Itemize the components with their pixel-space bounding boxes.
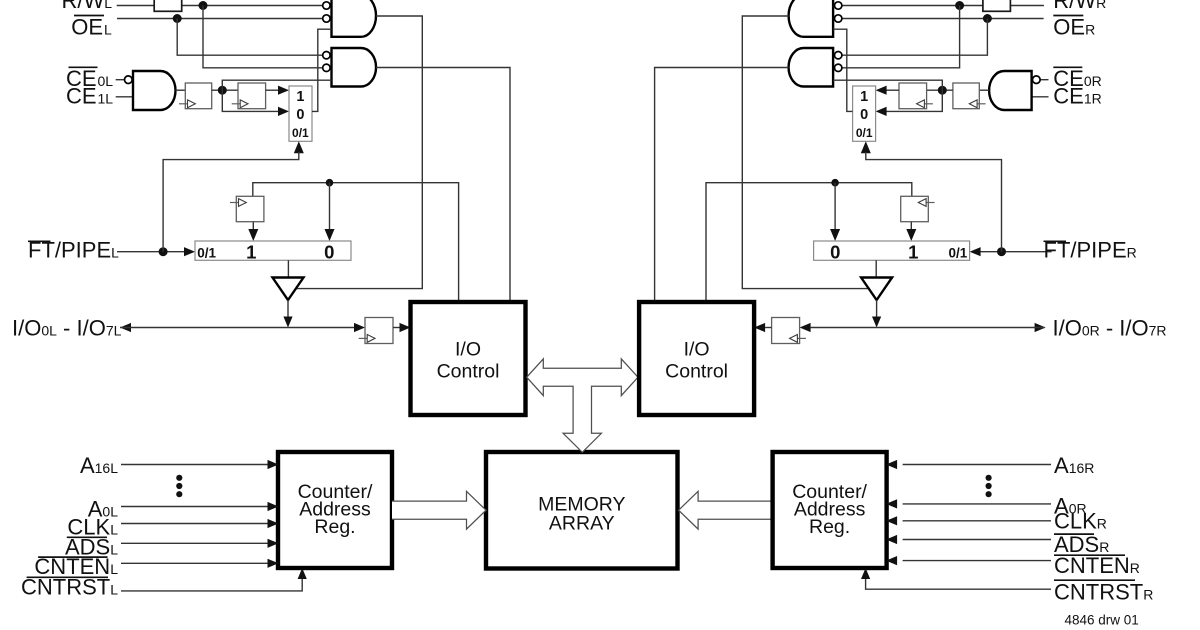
block Counter/Address Reg. R bbox=[773, 452, 887, 568]
arrow into M2R input 1 bbox=[906, 229, 916, 241]
node R/WL junction bbox=[199, 1, 208, 10]
arrow A16R into Counter R bbox=[886, 460, 897, 469]
arrow A0R into Counter R bbox=[886, 499, 897, 508]
arrow CNTENL into Counter L bbox=[268, 559, 279, 568]
wire junction up to gate G2L bbox=[222, 80, 331, 90]
label M1L 0 bbox=[296, 107, 304, 123]
overline FT/PIPER FT bbox=[1044, 240, 1067, 242]
svg-text:Control: Control bbox=[437, 361, 500, 383]
mux M2R (output flow-through/pipe) bbox=[814, 241, 970, 260]
wire CNTRSTL line bbox=[121, 579, 302, 591]
wire I/OR line bbox=[811, 327, 1045, 329]
arrow I/OR out bbox=[1035, 323, 1046, 332]
label CE1R bbox=[1053, 84, 1101, 109]
node pipe data junction bbox=[326, 179, 334, 187]
bubble G1L input 2 bbox=[323, 15, 330, 22]
arrow into M1R input 0 bbox=[876, 107, 887, 116]
wire junction down to M2L input 0 bbox=[329, 183, 331, 230]
wire TL to I/O line bbox=[287, 300, 289, 317]
latch L1L bbox=[185, 83, 211, 109]
label CE0R bbox=[1053, 66, 1101, 91]
label ADSR bbox=[1054, 532, 1109, 557]
label Counter L line1 bbox=[298, 481, 373, 503]
bubble G1R input 2 bbox=[835, 15, 842, 22]
label A0R bbox=[1054, 494, 1087, 519]
svg-text:0L: 0L bbox=[98, 73, 114, 89]
wire R/WL branch to gate G2L bbox=[203, 6, 322, 68]
bus arrow Counter R to Memory bbox=[679, 491, 773, 529]
wire FT/PIPER select up to M1R bbox=[866, 152, 1002, 252]
and-gate G3R (chip enable) bbox=[989, 71, 1031, 110]
wire pipe data line bbox=[253, 183, 459, 301]
svg-text:Control: Control bbox=[665, 361, 728, 383]
svg-text:CNTENR: CNTENR bbox=[1054, 553, 1140, 578]
and-gate G2R (write control) bbox=[789, 48, 834, 87]
wire OER line bbox=[842, 18, 1043, 20]
label M1R 0 bbox=[860, 107, 868, 123]
arrow into M2L input 0 bbox=[325, 229, 335, 241]
svg-text:CNTRSTL: CNTRSTL bbox=[21, 575, 118, 600]
wire CE0L stub bbox=[116, 79, 125, 81]
label Counter L line3 bbox=[314, 516, 355, 538]
wire L1L to L2L bbox=[212, 89, 238, 91]
arrow TL onto I/O line bbox=[283, 317, 292, 328]
arrow into latch L4L bbox=[354, 323, 365, 332]
label CE1L bbox=[66, 84, 113, 109]
bubble G2L input 1 bbox=[323, 52, 330, 59]
label Memory line1 bbox=[538, 494, 625, 516]
label R/WR bbox=[1053, 0, 1106, 13]
arrow into M1R input 1 bbox=[876, 86, 887, 95]
svg-text:1: 1 bbox=[246, 241, 256, 262]
svg-text:ARRAY: ARRAY bbox=[549, 513, 615, 535]
label M1L 0/1 bbox=[292, 126, 309, 140]
label I/O Control R line2 bbox=[665, 361, 728, 383]
wire A0R line bbox=[903, 503, 1051, 505]
wire FT/PIPEL line bbox=[117, 251, 185, 253]
arrow CNTRSTR into Counter R bbox=[861, 568, 870, 579]
node OEL junction bbox=[173, 14, 182, 23]
arrow into I/O control L bbox=[400, 323, 411, 332]
label Counter R line2 bbox=[794, 499, 866, 521]
svg-text:4846 drw 01: 4846 drw 01 bbox=[1065, 613, 1139, 628]
label A16L bbox=[80, 453, 118, 478]
buffer box on R/WR line bbox=[983, 0, 1011, 11]
label CNTRSTR bbox=[1054, 580, 1153, 605]
clock pin L3L bbox=[230, 199, 246, 207]
overline ADSR bbox=[1054, 533, 1094, 535]
wire CNTENL line bbox=[121, 562, 268, 564]
label Counter L line2 bbox=[299, 499, 371, 521]
wire CNTENR line bbox=[903, 560, 1051, 562]
svg-text:0: 0 bbox=[296, 107, 304, 123]
label I/O Control L line2 bbox=[437, 361, 500, 383]
clock pin L2R bbox=[917, 100, 933, 108]
wire OEL branch to gate G2L bbox=[177, 19, 322, 56]
wire ADSL line bbox=[121, 542, 268, 544]
wire FT/PIPEL select up to M1L bbox=[163, 152, 299, 252]
label ADSL bbox=[65, 535, 118, 560]
overline FT/PIPEL FT bbox=[28, 240, 51, 242]
label M1L 1 bbox=[296, 89, 304, 105]
label CE0L bbox=[66, 66, 113, 91]
wire CLKL line bbox=[121, 523, 268, 525]
arrow CLKL into Counter L bbox=[268, 519, 279, 528]
wire CE1R stub bbox=[1032, 96, 1049, 98]
label I/O0L - I/O7L bbox=[12, 316, 122, 341]
bubble G2R input 1 bbox=[835, 52, 842, 59]
arrow into latch L4R bbox=[800, 323, 811, 332]
latch L1R bbox=[953, 83, 979, 109]
overline OER bbox=[1053, 15, 1083, 17]
arrow select into M1R bbox=[861, 141, 871, 153]
node OER junction bbox=[983, 14, 992, 23]
wire CNTRSTR line bbox=[866, 579, 1051, 590]
block I/O Control R bbox=[639, 302, 754, 415]
clock pin L4R bbox=[790, 335, 806, 343]
wire G3L out bbox=[176, 89, 186, 91]
wire L2R to mux M1R input 1 bbox=[886, 89, 899, 91]
wire M1R output to gate G1R bbox=[833, 29, 853, 111]
wire A16L line bbox=[121, 464, 268, 466]
clock pin L1R bbox=[969, 100, 985, 108]
label CNTENL bbox=[34, 554, 118, 579]
overline CNTENR bbox=[1054, 554, 1125, 556]
wire pipe data line R bbox=[706, 183, 912, 301]
label R/WL bbox=[61, 0, 112, 13]
wire CE1L stub bbox=[116, 96, 133, 98]
wire G3R out bbox=[979, 89, 989, 91]
and-gate G3L (chip enable) bbox=[133, 71, 175, 110]
label A0L bbox=[88, 497, 118, 522]
wire CE0R stub bbox=[1040, 79, 1048, 81]
output driver TL bbox=[273, 278, 304, 301]
mux M1L (CE flow-through/pipe) bbox=[289, 86, 312, 141]
wire TR to I/O line bbox=[876, 300, 878, 317]
mux M1R (CE flow-through/pipe) bbox=[853, 86, 876, 141]
latch L4R (input latch) bbox=[772, 318, 800, 344]
buffer box on R/WL line bbox=[154, 0, 182, 11]
svg-text:Reg.: Reg. bbox=[809, 516, 850, 538]
arrow ADSR into Counter R bbox=[886, 535, 897, 544]
label CNTENR bbox=[1054, 553, 1140, 578]
label OER bbox=[1053, 15, 1095, 40]
svg-text:CE: CE bbox=[66, 84, 97, 109]
wire L4R to I/O control R bbox=[765, 327, 772, 329]
wire A16R line bbox=[903, 464, 1051, 466]
wire G1R output to OE driver R bbox=[742, 16, 867, 289]
node FT/PIPER junction bbox=[997, 247, 1006, 256]
label CLKL bbox=[67, 515, 118, 540]
label OEL bbox=[71, 15, 112, 40]
arrow FT/PIPEL into mux M2L bbox=[184, 247, 195, 256]
overline OEL bbox=[74, 15, 104, 17]
svg-text:0: 0 bbox=[860, 107, 868, 123]
wire I/OL line bbox=[120, 327, 354, 329]
arrow A16L into Counter L bbox=[268, 460, 279, 469]
bubble G3R input CE0R bbox=[1033, 76, 1041, 84]
wire ADSR line bbox=[903, 539, 1051, 541]
block Memory Array bbox=[486, 452, 678, 569]
arrow TR onto I/O line R bbox=[872, 317, 881, 328]
overline CNTRSTL bbox=[27, 576, 108, 578]
clock pin L4L bbox=[359, 335, 375, 343]
svg-text:0/1: 0/1 bbox=[856, 126, 873, 140]
and-gate G2L (write control) bbox=[332, 48, 377, 87]
arrow I/OL out bbox=[120, 323, 131, 332]
wire junction down to M2R input 0 bbox=[834, 183, 836, 230]
mux M2L (output flow-through/pipe) bbox=[195, 241, 351, 260]
node FT/PIPEL junction bbox=[159, 247, 168, 256]
wire L1R to L2R bbox=[927, 89, 953, 91]
overline CE0L bbox=[69, 66, 98, 68]
svg-text:I/O0L - I/O7L: I/O0L - I/O7L bbox=[12, 316, 122, 341]
label M2L 0 bbox=[324, 241, 334, 262]
bus arrow Counter L to Memory bbox=[392, 491, 486, 529]
bubble G2L input 2 bbox=[323, 64, 330, 71]
svg-text:1: 1 bbox=[908, 241, 918, 262]
label M1R 1 bbox=[860, 89, 868, 105]
label FT/PIPEL bbox=[28, 238, 119, 263]
wire R/WR branch to gate G2R bbox=[842, 6, 959, 68]
arrow FT/PIPER into mux M2R bbox=[970, 247, 981, 256]
label Counter R line3 bbox=[809, 516, 850, 538]
label FT/PIPER bbox=[1044, 238, 1137, 263]
clock pin L3R bbox=[918, 199, 934, 207]
svg-text:0: 0 bbox=[324, 241, 334, 262]
and-gate G1L (read control) bbox=[332, 0, 377, 37]
wire L3L down to M2L input 1 bbox=[252, 222, 254, 230]
bubble G2R input 2 bbox=[835, 64, 842, 71]
block I/O Control L bbox=[411, 302, 526, 415]
wire M2R to driver TR bbox=[875, 260, 877, 277]
wire junction up to gate G2R bbox=[833, 80, 942, 90]
arrow select into M1L bbox=[294, 141, 304, 153]
bubble G3L input CE0L bbox=[125, 76, 133, 84]
block Counter/Address Reg. L bbox=[278, 452, 392, 568]
latch L2R bbox=[899, 83, 927, 109]
wire G2R output to I/O control R bbox=[655, 68, 789, 302]
wire FT/PIPER line bbox=[980, 251, 1052, 253]
latch L4L (input latch) bbox=[365, 318, 393, 344]
bubble G1R input 1 bbox=[835, 2, 842, 9]
label I/O Control L line1 bbox=[455, 339, 481, 361]
wire M1L output to gate G1L bbox=[312, 29, 332, 111]
overline CE0R bbox=[1053, 66, 1082, 68]
arrow ADSL into Counter L bbox=[268, 539, 279, 548]
label I/O0R - I/O7R bbox=[1053, 316, 1167, 341]
wire G2L output to I/O control bbox=[376, 68, 510, 302]
overline CNTENL bbox=[38, 556, 107, 558]
wire OEL line bbox=[117, 18, 322, 20]
arrow A0L into Counter L bbox=[268, 502, 279, 511]
label M2R 1 bbox=[908, 241, 918, 262]
label M1R 0/1 bbox=[856, 126, 873, 140]
node CE pipe junction R bbox=[938, 86, 947, 95]
wire L3R down to M2R input 1 bbox=[910, 222, 912, 230]
output driver TR bbox=[861, 278, 892, 301]
ellipsis dots A-bus R bbox=[986, 475, 992, 498]
arrow into M2R input 0 bbox=[830, 229, 840, 241]
svg-text:0/1: 0/1 bbox=[197, 246, 216, 261]
label M2R 0 bbox=[830, 241, 840, 262]
arrow into M1L input 0 bbox=[278, 107, 289, 116]
node pipe data junction R bbox=[831, 179, 839, 187]
label M2R 0/1 bbox=[949, 246, 968, 261]
wire A0L line bbox=[121, 506, 268, 508]
wire R/WL line bbox=[117, 5, 323, 7]
arrow into I/O control R bbox=[754, 323, 765, 332]
label CLKR bbox=[1054, 509, 1107, 534]
overline ADSL bbox=[67, 536, 107, 538]
svg-text:1: 1 bbox=[860, 89, 868, 105]
wire CE bypass to mux M1R input 0 bbox=[886, 90, 943, 111]
wire L4L to I/O control bbox=[393, 327, 400, 329]
svg-text:CNTRSTR: CNTRSTR bbox=[1054, 580, 1153, 605]
latch L3L (output pipeline) bbox=[236, 196, 264, 221]
wire CLKR line bbox=[903, 520, 1051, 522]
wire CE bypass to mux M1L input 0 bbox=[222, 90, 279, 111]
svg-text:0/1: 0/1 bbox=[949, 246, 968, 261]
arrow into M1L input 1 bbox=[278, 86, 289, 95]
svg-text:1L: 1L bbox=[98, 91, 114, 107]
latch L3R (output pipeline) bbox=[901, 196, 929, 221]
svg-text:Reg.: Reg. bbox=[314, 516, 355, 538]
label CNTRSTL bbox=[21, 575, 118, 600]
arrow CLKR into Counter R bbox=[886, 516, 897, 525]
svg-text:0/1: 0/1 bbox=[292, 126, 309, 140]
wire G1L output to OE driver bbox=[297, 16, 422, 289]
label M2L 1 bbox=[246, 241, 256, 262]
ellipsis dots A-bus L bbox=[176, 475, 182, 498]
latch L2L bbox=[238, 83, 266, 109]
svg-text:I/O: I/O bbox=[684, 339, 710, 361]
arrow CNTENR into Counter R bbox=[886, 556, 897, 565]
label M2L 0/1 bbox=[197, 246, 216, 261]
svg-text:I/O: I/O bbox=[455, 339, 481, 361]
bubble G1L input 1 bbox=[323, 2, 330, 9]
clock pin L2L bbox=[232, 100, 248, 108]
wire M2L to driver TL bbox=[287, 260, 289, 277]
wire L2L to mux M1L input 1 bbox=[266, 89, 279, 91]
node R/WR junction bbox=[955, 1, 964, 10]
clock pin L1L bbox=[179, 100, 195, 108]
wire OER branch to gate G2R bbox=[842, 19, 987, 56]
label I/O Control R line1 bbox=[684, 339, 710, 361]
overline CNTRSTR bbox=[1054, 579, 1135, 581]
wire R/WR line bbox=[842, 5, 1044, 7]
svg-text:L: L bbox=[104, 22, 112, 38]
label Memory line2 bbox=[549, 513, 615, 535]
node CE pipe junction bbox=[218, 86, 227, 95]
arrow into M2L input 1 bbox=[248, 229, 258, 241]
svg-text:0: 0 bbox=[830, 241, 840, 262]
arrow CNTRSTL into Counter L bbox=[298, 568, 307, 579]
label A16R bbox=[1054, 453, 1094, 478]
and-gate G1R (read control) bbox=[789, 0, 834, 37]
label Counter R line1 bbox=[792, 481, 867, 503]
svg-text:1: 1 bbox=[296, 89, 304, 105]
svg-text:OE: OE bbox=[71, 15, 103, 40]
label drawing number bbox=[1065, 613, 1139, 628]
bus arrow I/O controls and Memory (3-way) bbox=[527, 359, 638, 452]
